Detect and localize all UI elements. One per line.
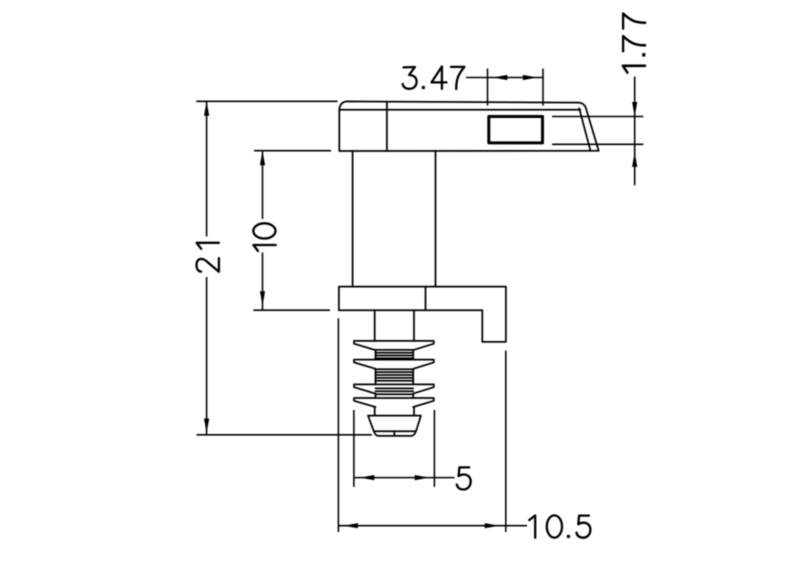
dim 3.47 right extension line (542, 69, 544, 106)
flange with hook outline (339, 287, 506, 342)
rivet neck lower right edge (413, 407, 415, 416)
dim 3.47 left arrowhead (493, 75, 508, 80)
dim 10.5 right extension line (505, 351, 507, 533)
tip outline (368, 416, 421, 436)
tip chamfer line (374, 430, 416, 432)
rib line section3-2 (376, 390, 414, 392)
flange inner vertical line (425, 287, 427, 311)
dim 21 value text (197, 243, 219, 272)
dim 3.47 value text (403, 67, 465, 90)
rib line section2-1 (376, 368, 414, 370)
rib line section1-3 (376, 355, 414, 357)
dim 1.77 dimension line (634, 77, 636, 186)
dim 10 top extension line (254, 150, 331, 152)
dim 1.77 value text (623, 13, 646, 72)
dim 3.47 left extension line (487, 69, 489, 106)
dim 10 lower arrowhead (260, 291, 265, 306)
dim 10.5 dimension line (338, 525, 527, 527)
rivet neck lower left edge (374, 407, 376, 416)
dim 5 dimension line (354, 477, 455, 479)
core right edge between fin3 and fin4 (412, 394, 414, 398)
rivet neck upper left edge (374, 310, 376, 341)
rib line section3-3 (376, 393, 414, 395)
dim 10 upper arrowhead (260, 151, 265, 166)
barb fin 4 (354, 398, 434, 407)
dim 3.47 right arrowhead (523, 75, 538, 80)
dim 21 lower arrowhead (204, 419, 209, 434)
dim 5 right extension line (433, 410, 435, 487)
head right chamfer inner slant line (579, 108, 590, 151)
rib line section3-1 (376, 387, 414, 389)
stem left edge (352, 151, 354, 287)
dim 10.5 right arrowhead (485, 523, 500, 528)
dim 1.77 upper arrowhead (632, 102, 637, 117)
rivet neck upper right edge (413, 310, 415, 341)
dim 1.77 upper extension line (552, 116, 643, 118)
dim 5 left arrowhead (360, 475, 375, 480)
head top rounded-edge parallel line (340, 109, 581, 111)
core left edge between fin3 and fin4 (375, 394, 377, 398)
dim 10 bottom extension line (253, 309, 330, 311)
dim 10 dimension line lower segment (262, 253, 264, 311)
rib line section2-3 (376, 374, 414, 376)
latch window rectangle (489, 117, 543, 143)
barb fin 3 (354, 384, 434, 393)
dim 10 value text (253, 223, 275, 251)
dim 21 dimension line lower segment (206, 277, 208, 435)
dim 21 top extension line (196, 100, 337, 102)
dim 21 bottom extension line (197, 434, 372, 436)
core right edge between fin1 and fin2 (412, 350, 414, 360)
dim 1.77 lower extension line (552, 143, 643, 145)
rib line section1-1 (376, 349, 414, 351)
dim 1.77 lower arrowhead (632, 152, 637, 167)
tip center tick (393, 431, 395, 436)
barb fin 1 (354, 341, 434, 350)
dim 10 dimension line upper segment (262, 151, 264, 219)
rib line section1-2 (376, 352, 414, 354)
dim 5 left extension line (353, 410, 355, 487)
stem right edge (435, 151, 437, 287)
barb fin 2 (354, 360, 434, 369)
head inner vertical line (386, 102, 388, 151)
dim 21 dimension line upper segment (206, 101, 208, 236)
core left edge between fin2 and fin3 (375, 369, 377, 385)
dim 21 upper arrowhead (204, 101, 209, 116)
dim 10.5 left extension line (337, 318, 339, 532)
dim 3.47 dimension line (466, 77, 543, 79)
dim 10.5 value text (529, 515, 590, 538)
dim 5 value text (457, 467, 471, 489)
clip head outline (339, 101, 598, 151)
rib line section1-4 (376, 357, 414, 359)
rib line section2-2 (376, 371, 414, 373)
dim 10.5 left arrowhead (343, 523, 358, 528)
core right edge between fin2 and fin3 (412, 369, 414, 385)
rib line section2-5 (376, 380, 414, 382)
dim 5 right arrowhead (415, 475, 430, 480)
rib line section2-4 (376, 377, 414, 379)
core left edge between fin1 and fin2 (375, 350, 377, 360)
